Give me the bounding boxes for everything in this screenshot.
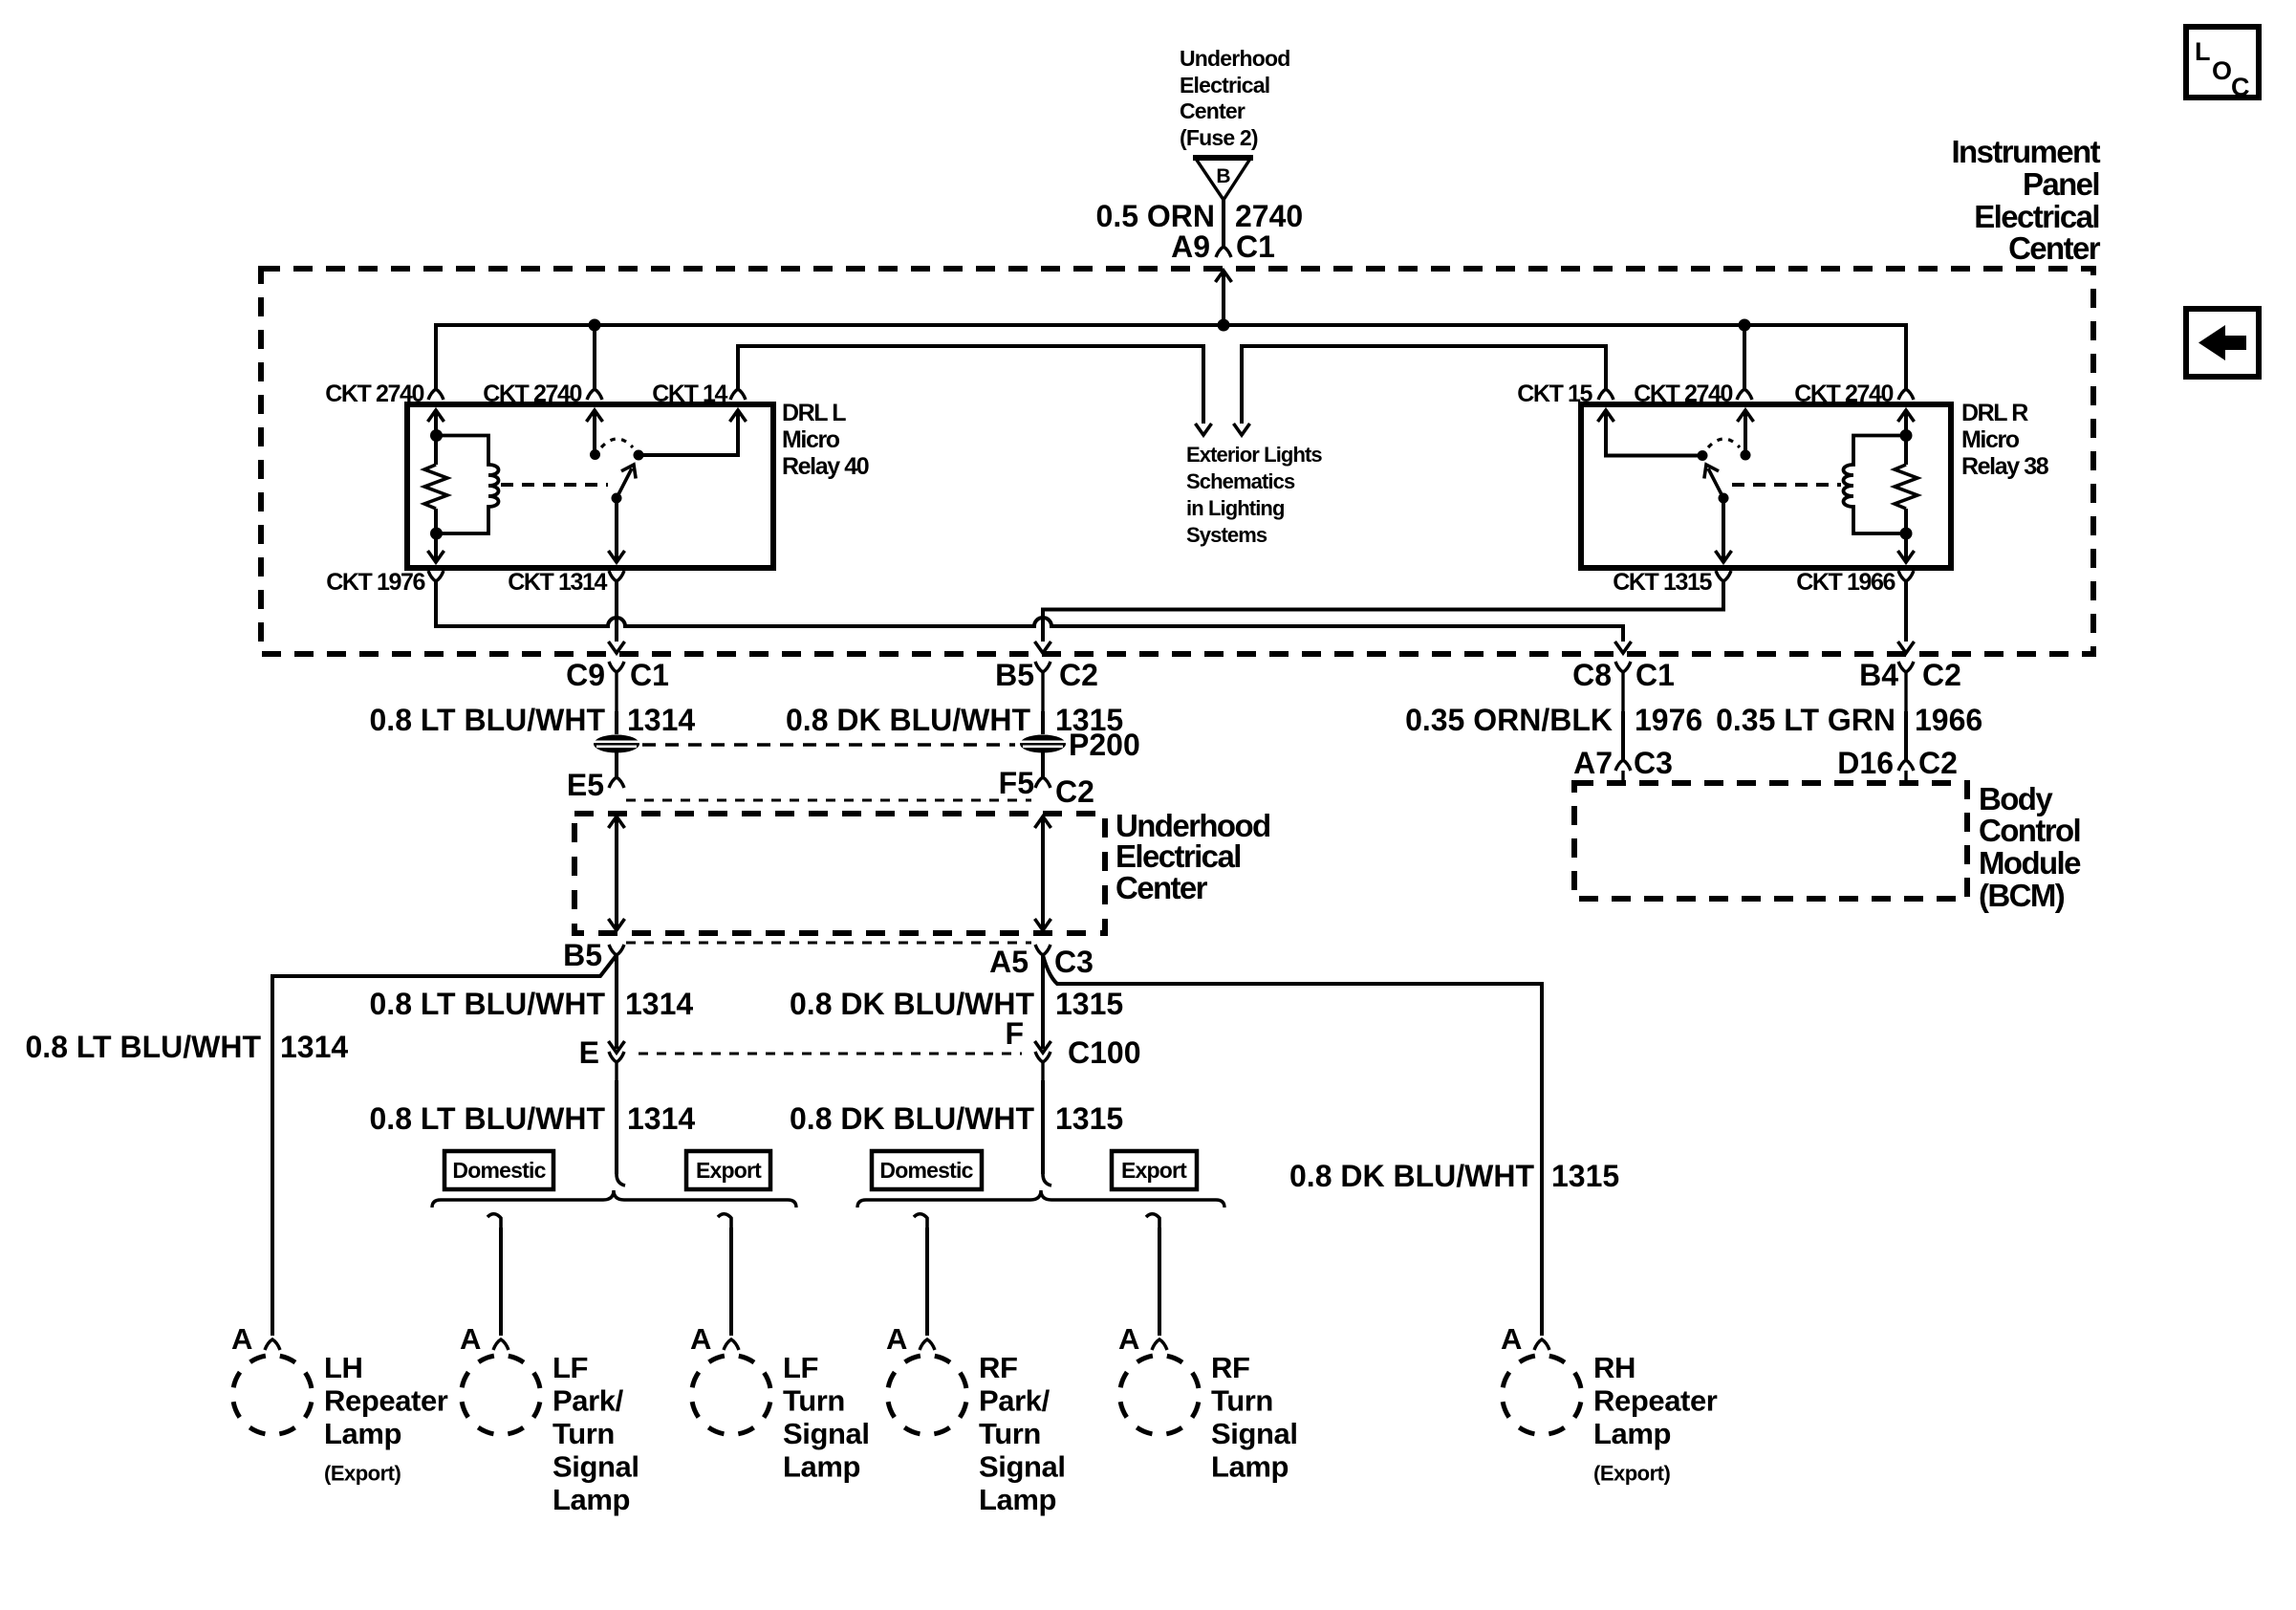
stub to RF Park/Turn lamp xyxy=(914,1214,927,1336)
label 0.8 DK BLU/WHT 1315 (row B) xyxy=(790,987,1123,1021)
svg-text:Lamp: Lamp xyxy=(324,1417,401,1450)
svg-text:Center: Center xyxy=(1180,98,1245,123)
coil right-relay winding xyxy=(1844,436,1907,534)
label 0.5 ORN 2740 xyxy=(1096,199,1304,233)
wire 1314 through UEC xyxy=(609,816,625,930)
svg-text:C1: C1 xyxy=(630,658,669,692)
svg-text:DRL R: DRL R xyxy=(1961,400,2028,426)
wire right-relay coil branch xyxy=(1898,410,1915,562)
stub to LF Turn lamp xyxy=(718,1214,731,1336)
svg-text:Park/: Park/ xyxy=(552,1384,624,1418)
label 0.8 DK BLU/WHT 1315 (right branch) xyxy=(1289,1159,1619,1193)
label 0.35 LT GRN 1966 xyxy=(1716,703,1982,737)
svg-text:A: A xyxy=(460,1322,481,1356)
svg-text:CKT 1315: CKT 1315 xyxy=(1613,569,1712,596)
svg-text:Repeater: Repeater xyxy=(1593,1384,1718,1418)
brace 1315 branches xyxy=(857,1190,1224,1207)
svg-text:CKT 1976: CKT 1976 xyxy=(326,569,424,596)
pin CKT 1966 below right relay xyxy=(1796,569,1914,596)
wire left-relay switch to CKT 1314 pin xyxy=(609,498,625,562)
svg-text:0.8 LT BLU/WHT: 0.8 LT BLU/WHT xyxy=(370,1101,606,1136)
pin CKT 15 right-relay NO contact xyxy=(1517,381,1614,407)
wire B4 to D16 xyxy=(1904,711,1908,760)
svg-text:A5: A5 xyxy=(989,945,1029,979)
svg-text:(Export): (Export) xyxy=(324,1462,401,1486)
svg-text:Panel: Panel xyxy=(2023,166,2099,202)
svg-text:Domestic: Domestic xyxy=(879,1158,973,1183)
svg-text:Relay 38: Relay 38 xyxy=(1961,453,2049,480)
wire splice to F5 xyxy=(1041,752,1045,777)
svg-text:Exterior Lights: Exterior Lights xyxy=(1186,443,1322,467)
label 0.8 LT BLU/WHT 1314 (far left) xyxy=(26,1030,349,1064)
svg-text:in Lighting: in Lighting xyxy=(1186,496,1285,520)
connector F5 C2 xyxy=(999,766,1094,809)
brace 1314 branches xyxy=(432,1190,796,1207)
svg-text:Instrument: Instrument xyxy=(1951,134,2100,169)
svg-text:0.8 LT BLU/WHT: 0.8 LT BLU/WHT xyxy=(26,1030,262,1064)
svg-text:P200: P200 xyxy=(1069,728,1140,762)
svg-text:Turn: Turn xyxy=(1211,1384,1273,1418)
box Domestic (1314) xyxy=(444,1151,553,1189)
svg-text:C2: C2 xyxy=(1918,746,1958,780)
svg-text:C9: C9 xyxy=(566,658,605,692)
box Domestic (1315) xyxy=(872,1151,982,1189)
svg-text:Micro: Micro xyxy=(1961,426,2020,453)
resistor right-relay xyxy=(1895,465,1917,509)
svg-text:C100: C100 xyxy=(1068,1035,1141,1070)
svg-text:C3: C3 xyxy=(1054,945,1094,979)
svg-text:C1: C1 xyxy=(1635,658,1675,692)
Underhood Electrical Center box (dashed) xyxy=(574,814,1105,933)
svg-text:RF: RF xyxy=(1211,1351,1250,1384)
svg-text:Electrical: Electrical xyxy=(1180,73,1269,98)
pin CKT 1315 below right relay xyxy=(1613,569,1731,596)
svg-text:L: L xyxy=(2195,37,2211,66)
svg-text:C2: C2 xyxy=(1055,774,1094,809)
svg-text:Electrical: Electrical xyxy=(1974,199,2099,234)
svg-text:Domestic: Domestic xyxy=(452,1158,546,1183)
splice P200 left xyxy=(594,735,639,753)
pin CKT 2740 left-relay common xyxy=(483,381,602,407)
svg-text:C2: C2 xyxy=(1922,658,1961,692)
svg-text:A: A xyxy=(1118,1322,1139,1356)
svg-text:1966: 1966 xyxy=(1915,703,1982,737)
svg-text:B5: B5 xyxy=(563,938,602,972)
box Export (1315) xyxy=(1112,1151,1197,1189)
wire C9 to splice P200 xyxy=(615,711,618,734)
label Body Control Module (BCM) xyxy=(1979,781,2081,913)
switch left-relay xyxy=(587,410,644,504)
svg-text:Relay 40: Relay 40 xyxy=(782,453,869,480)
svg-text:A: A xyxy=(1501,1322,1522,1356)
svg-text:0.8 DK BLU/WHT: 0.8 DK BLU/WHT xyxy=(790,1101,1034,1136)
wire splice to E5 xyxy=(615,752,618,777)
connector line E-F C100 (dashed) xyxy=(639,1053,1022,1055)
pin CKT 14 left-relay NO contact xyxy=(652,381,746,407)
pin CKT 2740 left-relay coil+ xyxy=(325,381,444,407)
relay DRL L Micro Relay 40 box xyxy=(407,404,773,568)
svg-text:Turn: Turn xyxy=(552,1417,615,1450)
stub to LF Park/Turn lamp xyxy=(487,1214,501,1336)
pin CKT 1314 below left relay xyxy=(508,569,624,596)
svg-text:Export: Export xyxy=(1121,1158,1187,1183)
svg-text:Export: Export xyxy=(696,1158,762,1183)
wire right-relay switch to CKT 1315 pin xyxy=(1716,498,1732,562)
label Underhood Electrical Center xyxy=(1116,808,1270,905)
connector B5 C2 xyxy=(995,658,1098,711)
svg-text:1314: 1314 xyxy=(627,703,695,737)
lamp RF Turn Signal Lamp (dashed circle) xyxy=(1120,1351,1298,1484)
wire CKT 1976 to C8 (hops over 1314 and 1315 drops) xyxy=(436,581,1632,653)
svg-text:C8: C8 xyxy=(1572,658,1612,692)
wire CKT 1966 to B4 xyxy=(1898,581,1915,653)
wire 1314 to domestic/export brace xyxy=(617,1080,625,1186)
connector D16 C2 xyxy=(1837,746,1958,783)
lamp RF Park/Turn Signal Lamp (dashed circle) xyxy=(888,1351,1066,1516)
svg-text:F5: F5 xyxy=(999,766,1034,800)
label Instrument Panel Electrical Center xyxy=(1951,134,2100,266)
wire branch B5 to LH repeater lamp xyxy=(272,955,617,1336)
svg-text:Electrical: Electrical xyxy=(1116,838,1241,874)
svg-text:0.5 ORN: 0.5 ORN xyxy=(1096,199,1215,233)
svg-text:LH: LH xyxy=(324,1351,363,1384)
Instrument Panel Electrical Center box (dashed) xyxy=(261,269,2093,654)
wire left-relay coil branch xyxy=(428,410,444,562)
svg-text:CKT 14: CKT 14 xyxy=(652,381,727,407)
svg-text:0.8 DK BLU/WHT: 0.8 DK BLU/WHT xyxy=(786,703,1030,737)
coil left-relay winding xyxy=(436,436,499,534)
connector C9 C1 xyxy=(566,658,669,711)
svg-text:C3: C3 xyxy=(1634,746,1673,780)
Body Control Module box (dashed) xyxy=(1574,783,1967,899)
wire branch A5/C3 to RH repeater lamp xyxy=(1043,955,1542,1336)
svg-text:CKT 2740: CKT 2740 xyxy=(483,381,581,407)
switch right-relay xyxy=(1698,410,1754,504)
fuse B - Underhood Electrical Center (Fuse 2) xyxy=(1180,46,1289,200)
wire 1315 through UEC xyxy=(1035,816,1051,930)
splice P200 dashed link xyxy=(642,743,1015,746)
svg-text:E5: E5 xyxy=(567,768,604,802)
resistor left-relay xyxy=(424,465,447,509)
svg-text:Module: Module xyxy=(1979,845,2081,881)
svg-text:CKT 1314: CKT 1314 xyxy=(508,569,607,596)
pin A of RF Turn Signal Lamp xyxy=(1118,1322,1167,1356)
wire 0.5 ORN 2740 from fuse xyxy=(1222,200,1225,247)
svg-text:(Fuse 2): (Fuse 2) xyxy=(1180,125,1258,150)
svg-text:C1: C1 xyxy=(1236,229,1275,264)
pin CKT 2740 right-relay coil+ xyxy=(1794,381,1914,407)
svg-text:0.8 LT BLU/WHT: 0.8 LT BLU/WHT xyxy=(370,703,606,737)
lamp LF Park/Turn Signal Lamp (dashed circle) xyxy=(462,1351,639,1516)
svg-text:RH: RH xyxy=(1593,1351,1635,1384)
svg-text:C: C xyxy=(2231,73,2250,101)
svg-text:A9: A9 xyxy=(1171,229,1210,264)
svg-text:1976: 1976 xyxy=(1635,703,1702,737)
wire right-relay mech link (dashed) xyxy=(1732,483,1841,487)
connector B5 (to C100 side) xyxy=(563,938,624,972)
label 0.8 LT BLU/WHT 1314 (row A) xyxy=(370,703,696,737)
label 0.8 DK BLU/WHT 1315 (row C) xyxy=(790,1101,1123,1136)
svg-text:Signal: Signal xyxy=(1211,1417,1298,1450)
lamp LF Turn Signal Lamp (dashed circle) xyxy=(692,1351,870,1484)
svg-text:CKT 2740: CKT 2740 xyxy=(325,381,423,407)
pin CKT 1976 below left relay xyxy=(326,569,444,596)
connector line B5-A5 (dashed) xyxy=(626,942,1031,945)
connector E5 xyxy=(567,768,624,802)
svg-text:Signal: Signal xyxy=(552,1450,639,1484)
wire CKT 1314 to C9 xyxy=(609,581,625,653)
wire CKT 14 to Exterior Lights xyxy=(738,346,1212,435)
svg-text:Underhood: Underhood xyxy=(1180,46,1289,71)
connector C8 C1 xyxy=(1572,658,1675,711)
wire 1315 to domestic/export brace xyxy=(1043,1080,1051,1186)
splice P200 right xyxy=(1020,728,1140,762)
svg-text:LF: LF xyxy=(552,1351,588,1384)
svg-text:A: A xyxy=(690,1322,711,1356)
svg-text:Repeater: Repeater xyxy=(324,1384,448,1418)
label 0.8 LT BLU/WHT 1314 (row B) xyxy=(370,987,694,1021)
svg-text:CKT 2740: CKT 2740 xyxy=(1794,381,1893,407)
connector F C100 xyxy=(1005,1016,1140,1080)
svg-text:A7: A7 xyxy=(1573,746,1613,780)
svg-text:0.8 DK BLU/WHT: 0.8 DK BLU/WHT xyxy=(1289,1159,1534,1193)
svg-text:0.8 DK BLU/WHT: 0.8 DK BLU/WHT xyxy=(790,987,1034,1021)
svg-text:B: B xyxy=(1216,165,1230,187)
pin CKT 2740 right-relay common xyxy=(1634,381,1752,407)
label 0.8 LT BLU/WHT 1314 (row C) xyxy=(370,1101,696,1136)
svg-text:0.35 ORN/BLK: 0.35 ORN/BLK xyxy=(1405,703,1613,737)
svg-text:Center: Center xyxy=(1116,870,1208,905)
svg-text:0.35 LT GRN: 0.35 LT GRN xyxy=(1716,703,1895,737)
label 0.35 ORN/BLK 1976 xyxy=(1405,703,1702,737)
svg-text:F: F xyxy=(1005,1016,1024,1051)
connector A9 C1 xyxy=(1171,229,1275,264)
svg-text:Center: Center xyxy=(2008,230,2101,266)
svg-text:Micro: Micro xyxy=(782,426,840,453)
svg-text:1314: 1314 xyxy=(280,1030,348,1064)
svg-text:Signal: Signal xyxy=(783,1417,870,1450)
pin A of RF Park/Turn Signal Lamp xyxy=(886,1322,935,1356)
icon back-arrow xyxy=(2186,309,2259,377)
wire CKT 15 to Exterior Lights xyxy=(1234,346,1607,435)
lamp RH Repeater Lamp (Export) (dashed circle) xyxy=(1503,1351,1718,1486)
relay DRL R Micro Relay 38 box xyxy=(1581,404,1951,568)
svg-text:1314: 1314 xyxy=(625,987,693,1021)
svg-text:E: E xyxy=(579,1035,599,1070)
pin A of RH Repeater Lamp (Export) xyxy=(1501,1322,1549,1356)
svg-text:A: A xyxy=(231,1322,252,1356)
svg-text:Signal: Signal xyxy=(979,1450,1066,1484)
stub to RF Turn lamp xyxy=(1146,1214,1159,1336)
svg-text:O: O xyxy=(2212,56,2232,85)
svg-text:1315: 1315 xyxy=(1055,1101,1123,1136)
svg-text:DRL L: DRL L xyxy=(782,400,846,426)
svg-text:A: A xyxy=(886,1322,907,1356)
svg-text:Lamp: Lamp xyxy=(1211,1450,1289,1484)
svg-text:(BCM): (BCM) xyxy=(1979,878,2065,913)
pin A of LF Turn Signal Lamp xyxy=(690,1322,739,1356)
wire bus CKT 2740 xyxy=(436,319,1906,390)
svg-text:Body: Body xyxy=(1979,781,2053,816)
label DRL R Micro Relay 38 xyxy=(1961,400,2049,480)
connector A7 C3 xyxy=(1573,746,1673,783)
svg-text:Turn: Turn xyxy=(979,1417,1041,1450)
wire left-relay mech link (dashed) xyxy=(501,483,608,487)
svg-text:Control: Control xyxy=(1979,813,2080,848)
svg-text:Lamp: Lamp xyxy=(1593,1417,1671,1450)
wire B5 to splice P200 xyxy=(1041,711,1045,734)
svg-text:CKT 15: CKT 15 xyxy=(1517,381,1592,407)
icon LOC xyxy=(2186,27,2259,101)
connector A5 C3 xyxy=(989,945,1094,979)
svg-text:1314: 1314 xyxy=(627,1101,695,1136)
svg-text:Lamp: Lamp xyxy=(979,1483,1056,1516)
svg-text:Systems: Systems xyxy=(1186,523,1267,547)
label 0.8 DK BLU/WHT 1315 (row A) xyxy=(786,703,1123,737)
svg-text:2740: 2740 xyxy=(1235,199,1303,233)
connector B4 C2 xyxy=(1859,658,1961,711)
label Exterior Lights Schematics in Lighting Systems xyxy=(1186,443,1322,547)
lamp LH Repeater Lamp (Export) (dashed circle) xyxy=(233,1351,448,1486)
connector line E5-F5 (dashed) xyxy=(626,799,1031,802)
wire C8 to A7 xyxy=(1621,711,1625,760)
label DRL L Micro Relay 40 xyxy=(782,400,869,480)
wire A5 down to F connector xyxy=(1041,955,1045,1049)
wire left-relay NO contact to CKT 14 xyxy=(639,410,747,455)
svg-text:B5: B5 xyxy=(995,658,1034,692)
pin A of LH Repeater Lamp (Export) xyxy=(231,1322,280,1356)
wire main 2740 feed into IP box xyxy=(1216,271,1232,325)
svg-text:LF: LF xyxy=(783,1351,818,1384)
pin A of LF Park/Turn Signal Lamp xyxy=(460,1322,509,1356)
svg-text:0.8 LT BLU/WHT: 0.8 LT BLU/WHT xyxy=(370,987,606,1021)
svg-text:C2: C2 xyxy=(1059,658,1098,692)
connector E (C100) xyxy=(579,1035,625,1080)
svg-text:Lamp: Lamp xyxy=(783,1450,860,1484)
svg-text:(Export): (Export) xyxy=(1593,1462,1671,1486)
box Export (1314) xyxy=(686,1151,770,1189)
wire CKT 1315 to B5 xyxy=(1035,581,1724,653)
wire right-relay NO contact to CKT 15 xyxy=(1598,410,1703,456)
svg-text:Turn: Turn xyxy=(783,1384,845,1418)
svg-text:CKT 1966: CKT 1966 xyxy=(1796,569,1895,596)
svg-text:CKT 2740: CKT 2740 xyxy=(1634,381,1732,407)
svg-text:RF: RF xyxy=(979,1351,1018,1384)
svg-text:Park/: Park/ xyxy=(979,1384,1051,1418)
svg-text:D16: D16 xyxy=(1837,746,1894,780)
svg-text:Schematics: Schematics xyxy=(1186,469,1295,493)
svg-text:1315: 1315 xyxy=(1551,1159,1619,1193)
svg-text:1315: 1315 xyxy=(1055,987,1123,1021)
wire B5 down to E connector xyxy=(615,955,618,1049)
svg-text:B4: B4 xyxy=(1859,658,1898,692)
svg-text:Lamp: Lamp xyxy=(552,1483,630,1516)
